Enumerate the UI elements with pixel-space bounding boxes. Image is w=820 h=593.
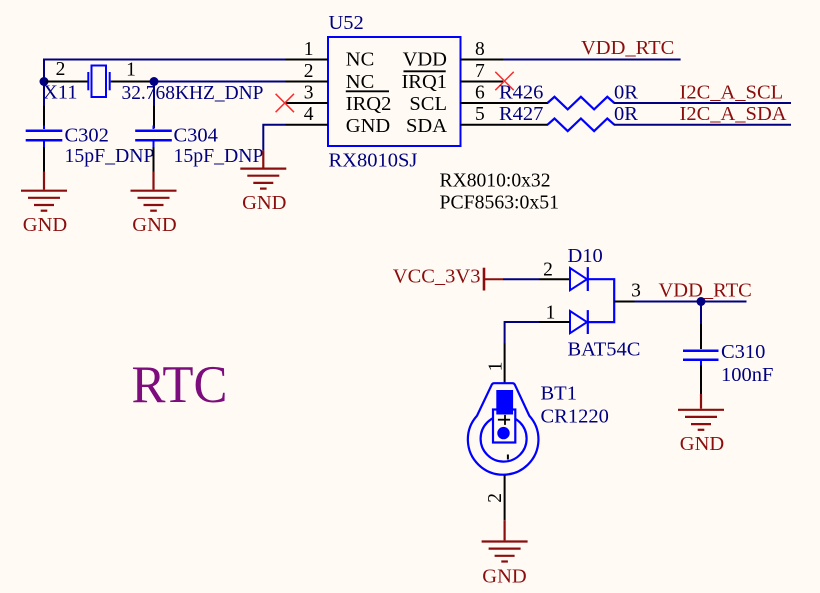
svg-text:U52: U52 [329,12,364,34]
resistor R427 [548,119,615,132]
wire X11 pin 1 to node B [111,81,151,83]
svg-text:VCC_3V3: VCC_3V3 [393,266,481,288]
svg-text:NC: NC [346,71,374,93]
note RX8010 address [440,170,551,192]
diode D10 lower [570,310,588,334]
C302 value 15pF_DNP [65,145,155,167]
svg-text:1: 1 [126,60,136,81]
svg-text:GND: GND [23,214,67,236]
svg-text:D10: D10 [568,245,603,267]
U52 pin 5 number [475,104,485,125]
svg-text:C310: C310 [721,341,765,363]
svg-text:SCL: SCL [409,93,447,115]
R426 value 0R [614,81,638,103]
wire node A to X11 pin 2 [46,81,88,83]
U52 pin 3 stub [286,102,329,104]
C310 value 100nF [721,364,773,386]
U52 pin 4 stub [286,124,329,126]
no-connect X on pin 7 [495,72,513,90]
wire C302 to ground [43,147,45,172]
U52 pin 6 stub [461,102,549,104]
crystal X11 [88,66,109,98]
U52 pin 5 stub [461,124,549,126]
R427 designator [499,103,543,125]
svg-text:VDD_RTC: VDD_RTC [659,280,752,302]
net label I2C_A_SCL [680,81,784,103]
svg-text:5: 5 [475,104,485,125]
U52 pin name GND [346,115,390,137]
svg-text:IRQ1: IRQ1 [401,71,447,93]
ground GND at C304 [131,172,177,237]
U52 pin 4 number [304,104,314,125]
svg-text:2: 2 [485,493,506,503]
X11 pin 1 number [126,60,136,81]
U52 pin name IRQ2 with overline [346,91,392,115]
X11 designator [43,82,78,104]
D10 pin 2 number [543,260,553,281]
svg-text:3: 3 [631,281,641,302]
svg-text:15pF_DNP: 15pF_DNP [174,145,264,167]
svg-text:C304: C304 [174,125,218,147]
U52 pin 8 stub [461,59,504,61]
node B junction [150,77,159,86]
svg-text:C302: C302 [65,125,109,147]
power port VCC_3V3 [393,266,503,291]
wire net to U52 pin 1 [44,60,286,82]
svg-text:CR1220: CR1220 [541,406,609,428]
node A junction [40,77,49,86]
C304 value 15pF_DNP [174,145,264,167]
capacitor C304 [135,126,172,148]
wire net VDD_RTC bottom [635,301,747,303]
svg-text:100nF: 100nF [721,364,773,386]
svg-text:RX8010SJ: RX8010SJ [329,149,418,171]
op IC U52 body [328,37,461,146]
svg-text:X11: X11 [43,82,78,104]
BT1 designator [541,383,577,405]
U52 pin name IRQ1 with overline [401,71,447,93]
wire node B to U52 pin 2 [158,81,286,83]
svg-text:PCF8563:0x51: PCF8563:0x51 [440,191,560,213]
svg-text:GND: GND [680,433,724,455]
wire node C down to C310 [700,302,702,350]
U52 pin 7 stub [461,81,504,83]
wire C310 to ground [700,365,702,394]
svg-text:GND: GND [346,115,390,137]
capacitor C310 [683,351,719,365]
C310 designator [721,341,765,363]
wire BT1 to D10 pin 1 [505,322,539,343]
BT1 pin 2 stub [504,475,506,520]
svg-text:VDD: VDD [403,48,447,70]
U52 pin 8 number [475,39,485,60]
wire net VDD_RTC top [503,59,681,61]
wire net I2C_A_SDA [614,124,791,126]
svg-text:GND: GND [482,566,526,588]
wire node B down to C304 [153,84,155,128]
wire D10 cathodes common [588,279,614,322]
BT1 pin 1 number (rotated) [486,362,507,372]
capacitor C302 [26,126,63,148]
wire node A down to C302 [43,84,45,128]
D10 pin 1 stub [539,321,570,323]
U52 value RX8010SJ [329,149,418,171]
svg-text:BT1: BT1 [541,383,577,405]
svg-text:GND: GND [242,192,286,214]
svg-text:VDD_RTC: VDD_RTC [581,37,674,59]
net label VDD_RTC bottom [659,280,752,302]
svg-text:6: 6 [475,83,485,104]
U52 pin name VDD [403,48,447,70]
R427 value 0R [614,103,638,125]
net label VDD_RTC top [581,37,674,59]
D10 pin 2 stub [539,278,570,280]
U52 pin name SCL [409,93,447,115]
BT1 value CR1220 [541,406,609,428]
wire net I2C_A_SCL [614,102,791,104]
svg-text:1: 1 [546,302,556,323]
ground GND at C310 [678,394,724,455]
svg-text:2: 2 [304,61,314,82]
C302 designator [65,125,109,147]
D10 designator [568,245,603,267]
wire VCC_3V3 to D10 pin 2 [503,278,539,280]
svg-text:0R: 0R [614,81,638,103]
D10 pin 1 number [546,302,556,323]
no-connect X on pin 3 [276,94,294,112]
svg-text:IRQ2: IRQ2 [346,93,392,115]
ground GND at U52 pin 4 [240,150,286,214]
D10 value BAT54C [568,339,641,361]
diode D10 upper [570,267,588,291]
BT1 pin 2 number (rotated) [485,493,506,503]
svg-text:SDA: SDA [406,115,447,137]
U52 pin name SDA [406,115,447,137]
svg-text:2: 2 [56,59,66,80]
U52 pin 2 stub [286,81,329,83]
svg-text:GND: GND [132,214,176,236]
U52 pin 1 stub [286,59,329,61]
U52 pin name NC (2) [346,71,374,93]
svg-text:1: 1 [486,362,507,372]
U52 pin 7 number [475,61,485,82]
node C junction VDD_RTC [697,297,706,306]
D10 pin 3 stub [614,301,634,303]
svg-text:2: 2 [543,260,553,281]
R426 designator [499,81,543,103]
wire U52 pin 4 to ground [263,125,285,151]
svg-text:7: 7 [475,61,485,82]
svg-text:I2C_A_SDA: I2C_A_SDA [680,103,787,125]
U52 pin name NC (1) [346,48,374,70]
X11 pin 2 number [56,59,66,80]
C304 designator [174,125,218,147]
title RTC [132,356,228,414]
svg-text:32.768KHZ_DNP: 32.768KHZ_DNP [122,82,264,104]
svg-text:RX8010:0x32: RX8010:0x32 [440,170,551,192]
U52 pin 2 number [304,61,314,82]
U52 pin 3 number [304,83,314,104]
battery BT1 [468,383,539,475]
svg-text:0R: 0R [614,103,638,125]
BT1 pin 1 stub [504,343,506,384]
svg-text:RTC: RTC [132,356,228,414]
svg-text:15pF_DNP: 15pF_DNP [65,145,155,167]
wire C304 to ground [153,147,155,172]
X11 value 32.768KHZ_DNP [122,82,264,104]
svg-text:4: 4 [304,104,314,125]
U52 pin 1 number [304,39,314,60]
ground GND at C302 [21,172,67,237]
svg-text:3: 3 [304,83,314,104]
svg-text:8: 8 [475,39,485,60]
svg-text:1: 1 [304,39,314,60]
resistor R426 [548,97,615,110]
svg-text:I2C_A_SCL: I2C_A_SCL [680,81,784,103]
U52 designator [329,12,364,34]
note PCF8563 address [440,191,560,213]
svg-text:NC: NC [346,48,374,70]
ground GND at BT1 [482,520,528,587]
D10 pin 3 number [631,281,641,302]
net label I2C_A_SDA [680,103,787,125]
svg-text:BAT54C: BAT54C [568,339,641,361]
U52 pin 6 number [475,83,485,104]
svg-text:R427: R427 [499,103,543,125]
svg-text:R426: R426 [499,81,543,103]
